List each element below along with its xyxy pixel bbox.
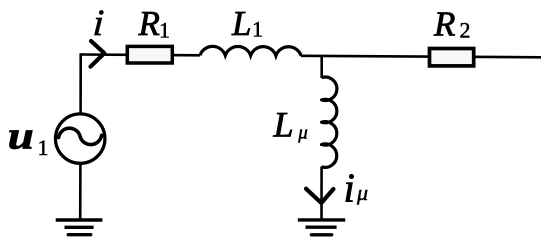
svg-text:1: 1 bbox=[252, 16, 263, 41]
svg-text:i: i bbox=[344, 165, 355, 211]
svg-text:R: R bbox=[138, 4, 160, 43]
svg-text:μ: μ bbox=[356, 180, 368, 205]
svg-text:2: 2 bbox=[460, 17, 471, 42]
svg-text:i: i bbox=[92, 3, 105, 44]
svg-text:L: L bbox=[231, 4, 251, 43]
svg-text:1: 1 bbox=[38, 135, 49, 160]
svg-text:μ: μ bbox=[297, 123, 308, 144]
svg-text:R: R bbox=[433, 4, 455, 43]
svg-text:u: u bbox=[8, 115, 34, 158]
svg-text:L: L bbox=[273, 105, 294, 145]
svg-text:1: 1 bbox=[159, 17, 170, 42]
